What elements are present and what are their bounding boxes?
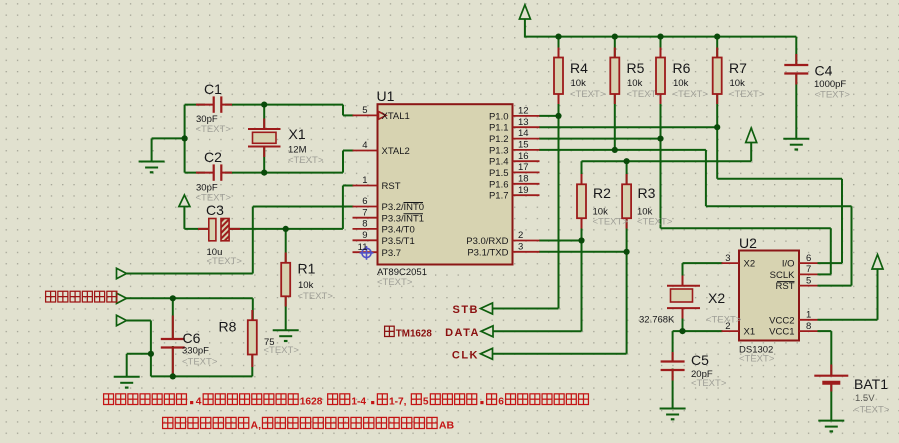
junction P1.2/R6 <box>657 136 663 142</box>
wire SCLK route to U2 pin 7 <box>818 273 831 275</box>
svg-text:X1: X1 <box>744 327 756 338</box>
wire arrow1 horizontal <box>127 273 253 275</box>
svg-text:STB: STB <box>453 304 480 316</box>
ground for C4 <box>783 138 809 140</box>
svg-text:P1.1: P1.1 <box>489 123 509 134</box>
svg-text:10k: 10k <box>673 78 689 89</box>
svg-text:P3.2/: P3.2/ <box>382 202 405 213</box>
power VCC arrow for C3 <box>183 207 185 229</box>
resistor R5 10k <box>610 58 619 95</box>
ground for C5 <box>660 408 686 410</box>
svg-text:1.5V: 1.5V <box>855 393 875 404</box>
wire XTAL1 net: left vertical <box>184 105 186 173</box>
wire arrow3 vertical <box>150 321 152 354</box>
ground for BAT1 <box>818 420 844 422</box>
svg-text:1000pF: 1000pF <box>814 79 846 90</box>
svg-text:INT1: INT1 <box>404 213 425 224</box>
wire VCC top rail <box>525 36 796 38</box>
junction P1.3/R5 <box>612 147 618 153</box>
wire R2 top <box>581 161 583 185</box>
svg-text:C1: C1 <box>204 81 222 97</box>
power VCC arrow for R2/R3 <box>750 143 752 162</box>
svg-text:4: 4 <box>362 140 367 151</box>
wire RST vertical <box>342 186 344 229</box>
wire I/O route to U2 pin 6 <box>818 262 843 264</box>
battery BAT1 1.5V <box>814 375 848 377</box>
svg-text:<TEXT>: <TEXT> <box>264 345 300 356</box>
wire XTAL1 row: corner to C1 <box>185 104 205 106</box>
wire into P3.2/INT0 pin <box>253 206 354 208</box>
wire U2 X2 pin lead <box>683 262 723 264</box>
svg-text:C4: C4 <box>815 63 833 79</box>
svg-text:R8: R8 <box>219 319 237 335</box>
svg-text:15: 15 <box>518 140 529 151</box>
junction arrow3/gnd <box>148 351 154 357</box>
terminal DATA <box>481 326 493 337</box>
svg-text:P1.3: P1.3 <box>489 145 509 156</box>
wire SCLK route horizontal <box>661 227 831 229</box>
svg-text:1-7,: 1-7, <box>389 397 407 408</box>
wire VCC1 to battery <box>818 330 832 332</box>
svg-text:P1.6: P1.6 <box>489 179 509 190</box>
wire X1 top <box>263 105 265 129</box>
wire R8 bottom stub <box>251 355 253 377</box>
svg-text:C5: C5 <box>691 352 709 368</box>
crystal X2 32.768K <box>667 285 700 287</box>
svg-text:RST: RST <box>382 181 401 192</box>
svg-text:10k: 10k <box>298 280 314 291</box>
op chip U2 DS1302 body <box>739 251 799 341</box>
svg-text:1-4: 1-4 <box>351 397 366 408</box>
svg-text:1628: 1628 <box>300 397 323 408</box>
capacitor C4 1000pF <box>784 64 808 66</box>
svg-text:P3.3/: P3.3/ <box>382 213 405 224</box>
junction P1.0/R4 <box>555 113 561 119</box>
wire C4 bottom to ground <box>795 74 797 139</box>
svg-text:INT0: INT0 <box>404 202 425 213</box>
wire R4 bottom / STB vertical <box>558 94 560 309</box>
wire X2 crystal top <box>682 263 684 286</box>
svg-text:7: 7 <box>362 207 367 218</box>
svg-text:14: 14 <box>518 128 529 139</box>
svg-text:P3.7: P3.7 <box>382 248 402 259</box>
svg-text:I/O: I/O <box>782 259 795 270</box>
ground bottom-left <box>114 376 140 378</box>
svg-text:C2: C2 <box>204 149 222 165</box>
wire VCC2 to power arrow <box>818 319 878 321</box>
svg-text:19: 19 <box>518 185 529 196</box>
U2 left pin stubs <box>722 262 740 264</box>
svg-text:6: 6 <box>498 397 504 408</box>
capacitor C2 30pF <box>213 164 215 180</box>
svg-text:<TEXT>: <TEXT> <box>854 405 890 416</box>
wire R7 top <box>716 37 718 58</box>
input terminal arrow 2 (IR in) <box>117 293 127 303</box>
svg-text:330pF: 330pF <box>182 346 209 357</box>
wire RST(U2) route to U2 pin 5 <box>818 285 852 287</box>
junction R3 bottom <box>624 249 630 255</box>
svg-text:P3.1/TXD: P3.1/TXD <box>467 247 508 258</box>
wire R5 bottom vertical <box>614 94 616 150</box>
wire P1.1 row to R7 column <box>539 126 717 128</box>
wire C6 top stub <box>172 298 174 339</box>
wire ground net down <box>150 354 152 377</box>
capacitor C1 30pF <box>213 96 215 112</box>
wire CLK horizontal <box>493 353 627 355</box>
wire R5 top <box>614 37 616 58</box>
svg-text:P1.5: P1.5 <box>489 168 509 179</box>
svg-text:A,: A, <box>250 420 261 432</box>
svg-text:<TEXT>: <TEXT> <box>570 89 606 100</box>
resistor R8 75 <box>248 320 257 354</box>
terminal STB <box>481 303 493 314</box>
ground for R1 <box>273 329 299 331</box>
svg-text:17: 17 <box>518 162 529 173</box>
svg-text:13: 13 <box>518 117 529 128</box>
wire C6 bottom stub <box>172 346 174 376</box>
svg-text:R3: R3 <box>638 185 656 201</box>
wire R1 bottom to ground <box>285 296 287 330</box>
svg-text:5: 5 <box>423 397 429 408</box>
input terminal arrow 3 (gnd side) <box>117 315 127 325</box>
svg-text:32.768K: 32.768K <box>639 315 675 326</box>
svg-text:<TEXT>: <TEXT> <box>288 155 324 166</box>
resistor R2 10k <box>577 184 586 218</box>
svg-text:C6: C6 <box>183 330 201 346</box>
resistor R1 10k <box>281 263 290 297</box>
svg-text:12: 12 <box>518 106 529 117</box>
junction P1.1/R7 <box>714 124 720 130</box>
wire X1 bottom <box>263 147 265 173</box>
svg-text:P1.0: P1.0 <box>489 111 509 122</box>
svg-text:R7: R7 <box>729 60 747 76</box>
svg-text:8: 8 <box>806 321 811 332</box>
red component pin stubs <box>558 48 560 58</box>
wire XTAL2 row <box>185 172 205 174</box>
wire P1.0 row to R4/STB column <box>539 115 559 117</box>
svg-text:10k: 10k <box>730 78 746 89</box>
wire R3 bottom / CLK vertical <box>626 218 628 354</box>
wire C6/R8 bottom rail <box>151 375 252 377</box>
svg-text:<TEXT>: <TEXT> <box>673 89 709 100</box>
svg-text:X2: X2 <box>708 290 725 306</box>
svg-text:P1.2: P1.2 <box>489 134 509 145</box>
crystal X1 12M <box>248 128 281 130</box>
svg-text:<TEXT>: <TEXT> <box>691 378 727 389</box>
svg-text:12M: 12M <box>288 145 307 156</box>
wire to ground stem <box>127 353 151 355</box>
junction X2/X1 pin <box>679 328 685 334</box>
wire arrow3 horizontal <box>127 320 151 322</box>
svg-text:<TEXT>: <TEXT> <box>298 291 334 302</box>
wire XTAL2 jog up <box>342 151 344 173</box>
svg-text:1: 1 <box>362 175 367 186</box>
power VCC arrow top <box>524 19 526 38</box>
svg-text:18: 18 <box>518 173 529 184</box>
svg-text:R1: R1 <box>298 261 316 277</box>
svg-text:<TEXT>: <TEXT> <box>706 315 742 326</box>
svg-text:XTAL1: XTAL1 <box>382 111 410 122</box>
junction dots on VCC rail <box>555 34 561 40</box>
wire arrow1 vertical <box>252 207 254 274</box>
wire ground tap for C1/C2 <box>152 137 185 139</box>
wire arrow2 to R8 top <box>252 298 254 320</box>
svg-text:3: 3 <box>518 241 523 252</box>
svg-text:<TEXT>: <TEXT> <box>729 89 765 100</box>
svg-text:P3.5/T1: P3.5/T1 <box>382 236 415 247</box>
svg-text:P1.4: P1.4 <box>489 157 509 168</box>
svg-text:16: 16 <box>518 151 529 162</box>
U1 left pin stubs <box>353 114 378 116</box>
svg-text:X1: X1 <box>289 126 306 142</box>
note line 1 <box>104 394 114 405</box>
input terminal arrow 1 (to INT0) <box>117 268 127 278</box>
svg-text:3: 3 <box>725 253 730 264</box>
note line 2 <box>163 417 173 428</box>
wire P3.0/RXD row to R2 column <box>539 240 582 242</box>
svg-text:AB: AB <box>439 420 455 432</box>
svg-text:4: 4 <box>196 397 202 408</box>
junction R1 top <box>283 226 289 232</box>
wire R3 top <box>626 161 628 185</box>
svg-text:TM1628: TM1628 <box>396 329 433 340</box>
svg-text:1: 1 <box>806 310 811 321</box>
svg-text:CLK: CLK <box>452 349 479 361</box>
svg-text:<TEXT>: <TEXT> <box>815 90 851 101</box>
svg-text:<TEXT>: <TEXT> <box>182 357 218 368</box>
wire P1.2 row to R6 column <box>539 138 661 140</box>
ground for C1/C2 <box>139 161 165 163</box>
capacitor C6 330pF <box>161 338 185 340</box>
resistor R7 10k <box>713 58 722 95</box>
svg-text:<TEXT>: <TEXT> <box>196 124 232 135</box>
junction gnd tap <box>182 135 188 141</box>
svg-text:RST: RST <box>776 281 795 292</box>
svg-text:7: 7 <box>806 264 811 275</box>
svg-text:U2: U2 <box>739 235 757 251</box>
wire C3 row to RST corner <box>184 228 209 230</box>
wire R6 top <box>660 37 662 58</box>
no-connect marker pin 11 P3.7 <box>360 246 374 260</box>
wire arrow2 horizontal <box>127 297 253 299</box>
svg-text:BAT1: BAT1 <box>854 376 888 392</box>
junction C6 bottom <box>170 373 176 379</box>
junction C2/X1 <box>261 170 267 176</box>
wire R2 bottom / DATA vertical <box>581 218 583 332</box>
junction R2 bottom <box>578 237 584 243</box>
svg-text:<TEXT>: <TEXT> <box>207 256 243 267</box>
svg-text:P3.4/T0: P3.4/T0 <box>382 225 415 236</box>
svg-text:6: 6 <box>806 253 811 264</box>
svg-text:R2: R2 <box>593 185 611 201</box>
wire STB horizontal <box>493 308 559 310</box>
wire U2 X1 row <box>673 330 723 332</box>
wire DATA horizontal <box>493 330 582 332</box>
wire RST(U2) route horizontal <box>706 205 852 207</box>
svg-text:R5: R5 <box>627 60 645 76</box>
label red: 接红外接收头 (connect IR receiver) <box>46 291 56 302</box>
wire C5 bottom to ground <box>672 369 674 409</box>
svg-text:XTAL2: XTAL2 <box>382 146 410 157</box>
wire battery bottom to ground <box>830 384 832 421</box>
resistor R4 10k <box>554 58 563 95</box>
wire I/O route vertical <box>841 179 843 263</box>
capacitor C3 10u electrolytic <box>209 219 216 241</box>
label red: 按TM1628 <box>385 326 395 336</box>
svg-text:10k: 10k <box>627 78 643 89</box>
wire R1 top stub <box>285 229 287 263</box>
junction R3 top <box>624 158 630 164</box>
U1 right pin stubs <box>513 115 540 117</box>
wire R2/R3 pull-up rail <box>582 160 752 162</box>
capacitor C5 20pF <box>661 360 685 362</box>
wire SCLK route vertical <box>830 228 832 274</box>
svg-text:DATA: DATA <box>445 327 480 339</box>
svg-text:6: 6 <box>362 196 367 207</box>
svg-text:8: 8 <box>362 219 367 230</box>
svg-text:<TEXT>: <TEXT> <box>377 277 413 288</box>
wire X2 crystal bottom <box>682 308 684 331</box>
svg-text:5: 5 <box>806 275 811 286</box>
wire I/O route horizontal <box>717 178 842 180</box>
svg-text:C3: C3 <box>206 202 224 218</box>
junction C6 top <box>170 295 176 301</box>
svg-text:10k: 10k <box>571 78 587 89</box>
wire XTAL1 jog down <box>342 105 344 116</box>
svg-text:<TEXT>: <TEXT> <box>739 354 775 365</box>
wire R7 bottom vertical to I/O route <box>716 94 718 179</box>
wire RST(U2) route vertical 1 <box>705 150 707 206</box>
U1 XTAL1 clock mark <box>379 112 387 120</box>
op chip U1 AT89C2051 body <box>378 104 513 264</box>
svg-text:R6: R6 <box>673 60 691 76</box>
wire C5 top stub <box>672 331 674 361</box>
wire C4 top <box>795 37 797 65</box>
svg-text:P1.7: P1.7 <box>489 191 509 202</box>
svg-text:U1: U1 <box>377 88 395 104</box>
resistor R6 10k <box>656 58 665 95</box>
svg-text:SCLK: SCLK <box>770 270 795 281</box>
svg-text:2: 2 <box>518 230 523 241</box>
svg-text:P3.0/RXD: P3.0/RXD <box>466 236 508 247</box>
power VCC arrow near BAT1 <box>872 255 883 270</box>
junction C1/X1 <box>261 102 267 108</box>
wire P3.1/TXD row to R3 column <box>539 251 627 253</box>
svg-text:5: 5 <box>362 105 367 116</box>
svg-text:X2: X2 <box>744 259 756 270</box>
svg-text:9: 9 <box>362 230 367 241</box>
wire RST(U2) route vertical 2 <box>851 206 853 285</box>
wire R4 top <box>558 37 560 58</box>
wire R6 bottom vertical to SCLK route <box>660 94 662 229</box>
U2 right pin stubs <box>799 262 818 264</box>
wire RST into pin <box>343 185 354 187</box>
svg-text:R4: R4 <box>570 60 588 76</box>
terminal CLK <box>481 348 493 359</box>
svg-text:VCC1: VCC1 <box>769 327 794 338</box>
svg-text:11: 11 <box>358 242 368 253</box>
svg-text:VCC2: VCC2 <box>769 315 794 326</box>
svg-text:<TEXT>: <TEXT> <box>637 217 673 228</box>
wire P1.3 row to x=706 <box>539 149 706 151</box>
resistor R3 10k <box>622 184 631 218</box>
